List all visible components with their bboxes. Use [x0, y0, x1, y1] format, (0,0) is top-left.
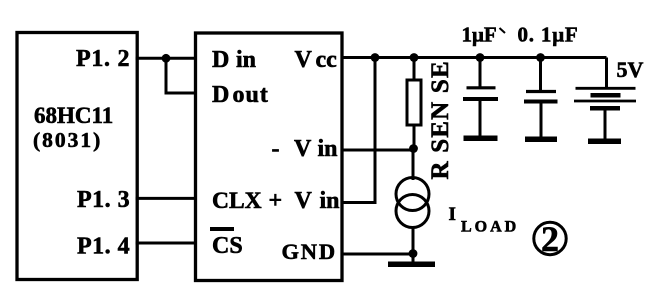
svg-text:LOAD: LOAD [461, 219, 519, 236]
current source I LOAD [396, 178, 429, 228]
junction dot node +Vin riser [371, 53, 380, 62]
svg-text:P1. 3: P1. 3 [77, 187, 130, 213]
svg-text:CS: CS [212, 233, 243, 259]
wire GND pin to ground node [342, 253, 413, 256]
svg-text:CLX: CLX [212, 188, 262, 214]
svg-text:Vcc: Vcc [295, 47, 338, 73]
svg-text:+Vin: +Vin [269, 188, 340, 214]
wire P1.4 to CS [136, 242, 196, 245]
junction dot on P1.2 wire [162, 54, 171, 63]
svg-text:5V: 5V [617, 57, 644, 82]
svg-text:68HC11: 68HC11 [34, 103, 113, 128]
label I LOAD [449, 204, 520, 236]
speck after 1uF [500, 28, 506, 33]
pin label CS with overline [210, 229, 243, 259]
MCU box U1 68HC11 [17, 33, 137, 280]
label R SENSE [427, 60, 454, 179]
svg-text:0. 1μF: 0. 1μF [518, 23, 579, 47]
capacitor C2 0.1uF [524, 58, 558, 143]
svg-text:Dout: Dout [212, 82, 269, 108]
junction dot ground node [409, 249, 418, 258]
junction dot node Rsense top [410, 53, 419, 62]
battery BT1 5V [574, 58, 636, 145]
svg-text:P1. 2: P1. 2 [76, 46, 130, 72]
ADC box U2 [196, 33, 343, 281]
junction dot node C2 [536, 53, 545, 62]
wire current source to ground node [412, 228, 415, 255]
wire +Vin riser [342, 58, 375, 203]
resistor R SENSE [407, 58, 421, 149]
figure number circled 2 [534, 219, 566, 259]
wire Rsense bottom to current source [412, 148, 415, 180]
svg-text:(8031): (8031) [33, 128, 102, 152]
Vcc rail wire [342, 56, 607, 59]
wire P1.2 to Din [136, 57, 196, 60]
wire branch to Dout [166, 58, 196, 93]
wire P1.3 to CLX [136, 197, 196, 200]
svg-text:2: 2 [541, 219, 559, 259]
svg-text:1μF: 1μF [462, 23, 497, 47]
svg-text:I: I [449, 204, 456, 225]
svg-text:P1. 4: P1. 4 [77, 234, 130, 260]
junction dot node C1 [476, 53, 485, 62]
capacitor C1 1uF [463, 58, 498, 142]
ground symbol main [388, 254, 435, 267]
wire -Vin to Rsense bottom [342, 149, 414, 152]
junction dot node Rsense bottom [409, 144, 418, 153]
svg-text:GND: GND [282, 239, 337, 264]
svg-text:R SEN SE: R SEN SE [427, 60, 454, 179]
